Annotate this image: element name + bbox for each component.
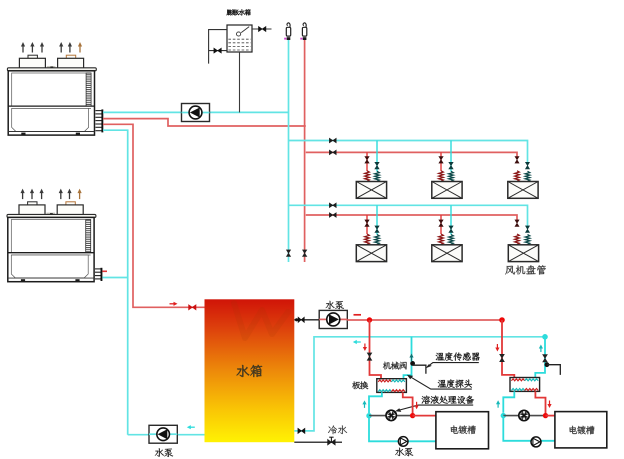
- expansion tank overflow pipe (right) with valve: [252, 28, 272, 30]
- wire: gray link through solution treatment device: [369, 415, 413, 417]
- label: 水泵 top-right: [326, 301, 344, 309]
- automatic air vent on red supply riser: [302, 27, 306, 36]
- unit 2 outlet connector comb: [95, 268, 101, 270]
- wire: row1 cyan return bus: [289, 141, 528, 163]
- wire: red from unit1 down to tank feed valve: [103, 124, 205, 307]
- label: fan coil units 风机盘管: [505, 265, 546, 275]
- fan coil unit row1 #1: [366, 152, 368, 171]
- wire: red process supply bus: [347, 319, 502, 321]
- valve on red tank feed: [189, 305, 196, 310]
- fan coil row2 #2 box: [432, 245, 462, 262]
- wire: red from node to electroplating tank 1: [413, 415, 436, 417]
- fan coil unit row2 #2: [440, 215, 442, 234]
- wire: red from node up to HX1 bottom-right: [403, 392, 413, 413]
- plate heat exchanger 板换 HX1: [377, 379, 407, 393]
- expansion tank bottom connection to suction line: [239, 52, 241, 112]
- node: red bus end junction: [499, 317, 505, 323]
- automatic air vent on cyan return riser: [286, 27, 290, 36]
- node: junction red bus / module1 drop: [367, 317, 372, 322]
- fan coil row1 #2 box: [432, 182, 462, 199]
- fan coil unit row2 #1: [366, 215, 368, 234]
- wire: red from node to electroplating tank 2: [546, 415, 555, 417]
- heat pump unit 1 (air-cooled, top-left): [7, 42, 96, 135]
- water tank 水箱 (thermal storage, gradient hot->warm): [205, 299, 295, 442]
- fan coil row1 #3 box: [508, 182, 538, 199]
- node: cyan bus end junction: [542, 334, 548, 340]
- expansion tank body: [227, 25, 252, 52]
- fan coil row2 #1 box: [356, 245, 386, 262]
- expansion tank left piping with drain valve: [209, 30, 227, 64]
- watermark W inside tank: [234, 303, 288, 338]
- wire: row2 red supply bus: [306, 215, 517, 222]
- wire: unit2 cyan connection to vertical: [102, 277, 127, 279]
- label: 板换 plate HX: [352, 381, 368, 389]
- label: 温度探头 temperature probe: [438, 379, 472, 387]
- unit 1 outlet connector comb: [96, 110, 102, 112]
- isolating valve on bus: [329, 213, 336, 218]
- wire: cyan bottom loop to electroplating tank 2 (through pump): [503, 416, 555, 441]
- isolating valve on bus: [329, 203, 336, 208]
- float valve in expansion tank: [237, 32, 241, 36]
- wire: cyan riser from HX1 top to return bus: [404, 337, 412, 379]
- wire: red drop from bus to HX1: [370, 320, 382, 379]
- wire: cyan from HX2 bottom-left down to node: [503, 391, 514, 412]
- plate heat exchanger HX2: [510, 378, 540, 392]
- fan coil unit row1 #3: [515, 157, 519, 164]
- wire: cyan return main from unit1 to riser (through pump): [103, 111, 289, 113]
- solution treatment device (circle with mesh) 溶液处理设备: [386, 410, 396, 420]
- wire: row1 red supply bus: [306, 152, 517, 158]
- cyan flow arrow on return bus: [355, 341, 361, 343]
- cyan suction from tank bottom-left to pump: [128, 434, 205, 436]
- cyan from tank bottom-right with valve, up to return bus: [294, 337, 545, 431]
- sensor pocket on cyan riser module2: [545, 362, 550, 367]
- node: cyan junction module2: [501, 413, 506, 418]
- cold water make-up line 冷水: [294, 441, 342, 443]
- pump P1 (chilled/hot water circulating pump): [182, 104, 210, 122]
- wire: cyan riser from HX2 top to return bus end: [535, 337, 545, 378]
- red flow dash on bus: [354, 314, 362, 316]
- wire: red supply from unit1 to fan-coil riser: [103, 119, 306, 126]
- isolating valve on bus: [329, 150, 336, 155]
- wire: gray link through device module2: [503, 415, 545, 417]
- mechanical valve sensor pocket on cyan riser: [410, 361, 415, 366]
- globe valve on cold water line: [328, 439, 336, 445]
- drain valve at bottom of cyan return riser: [286, 250, 290, 257]
- wire: row2 cyan return bus: [289, 205, 528, 226]
- node: red junction module2: [543, 413, 548, 418]
- label: 机械阀 mechanical valve: [383, 362, 407, 370]
- label: 水泵 module1: [395, 448, 413, 456]
- label: 温度传感器 temperature sensor: [436, 352, 480, 360]
- pump P5 (plating tank pump 2): [531, 437, 541, 447]
- fan coil row2 #3 box: [508, 245, 538, 262]
- leader line to device: [398, 405, 473, 410]
- wire: cyan return riser: [288, 40, 290, 262]
- heat pump unit 2 (air-cooled, mid-left): [7, 189, 96, 282]
- leader line to probe at HX top-right: [410, 376, 472, 389]
- electroplating tank 2 电镀槽: [555, 412, 607, 448]
- label: 冷水: [328, 425, 347, 434]
- label: 电镀槽 1: [451, 425, 476, 434]
- wire: red from node up to HX2 bottom-right: [535, 391, 545, 413]
- fan coil unit row2 #3: [515, 220, 519, 227]
- label: 水泵 bottom-left: [155, 448, 173, 457]
- pump P4 (plating tank pump): [398, 437, 408, 447]
- isolating valve on bus: [329, 138, 336, 143]
- leader line to sensor: [427, 363, 479, 367]
- wire: red drop from bus to HX2: [502, 320, 514, 378]
- wire: cyan bottom loop to electroplating tank 1 (through pump): [369, 416, 436, 442]
- wire: cyan from unit1 down to tank bottom circuit: [103, 130, 128, 435]
- fan coil row1 #1 box: [356, 182, 386, 199]
- wire: red supply riser: [304, 40, 306, 262]
- label: expansion tank 膨胀水箱: [227, 9, 251, 15]
- wire: unit2 red stub: [102, 270, 107, 272]
- wire: cyan from HX1 bottom-left down to node: [369, 392, 382, 413]
- label: 水箱: [237, 365, 262, 377]
- node: cyan junction module1: [366, 413, 371, 418]
- electroplating tank 1 电镀槽: [436, 412, 489, 449]
- node: red junction module1: [410, 413, 415, 418]
- label: 溶液处理设备 solution treatment: [422, 396, 474, 404]
- solution treatment device module2: [519, 410, 529, 420]
- red feed into tank: flow arrow: [170, 303, 176, 305]
- pump P2 (tank charging pump) 水泵: [149, 425, 177, 443]
- pump P3 (process hot water pump) 水泵: [319, 310, 347, 328]
- fan coil unit row1 #2: [440, 152, 442, 171]
- black stub + valve from tank to pump P3: [294, 319, 319, 321]
- label: 电镀槽 2: [569, 426, 594, 435]
- drain valve at bottom of red supply riser: [303, 250, 307, 257]
